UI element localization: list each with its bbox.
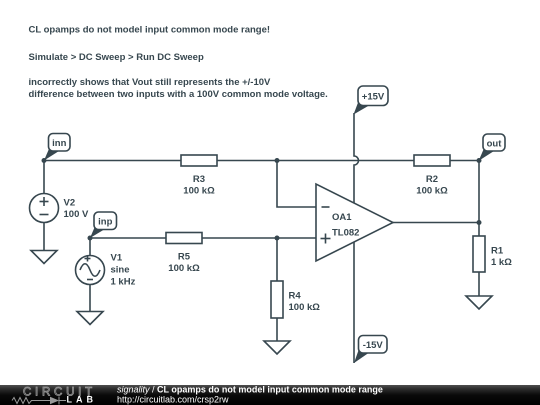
ground below V2 <box>31 251 57 264</box>
power flag +15V <box>354 86 389 115</box>
resistor R4 <box>271 281 320 318</box>
wire feedback node to inverting input <box>277 161 316 208</box>
junction node output/R1 <box>477 220 482 225</box>
svg-text:inn: inn <box>52 138 66 149</box>
voltage source V1 (sine) <box>76 253 136 288</box>
svg-text:100 kΩ: 100 kΩ <box>168 263 200 274</box>
wire R3 to R2 <box>217 160 414 162</box>
svg-text:sine: sine <box>111 265 130 276</box>
svg-text:R3: R3 <box>193 174 205 185</box>
junction node at inp <box>88 236 93 241</box>
svg-text:+15V: +15V <box>362 92 385 103</box>
wire V1 to ground <box>89 285 91 312</box>
wire R5 to non-inverting input <box>202 237 316 239</box>
junction node feedback/R3 <box>275 158 280 163</box>
svg-text:R1: R1 <box>491 246 504 257</box>
wire R1 to ground <box>478 272 480 296</box>
svg-text:TL082: TL082 <box>332 228 359 239</box>
svg-text:R2: R2 <box>426 174 438 185</box>
wire -15V supply <box>353 242 355 363</box>
voltage source V2 <box>30 194 89 223</box>
resistor R3 <box>181 155 217 197</box>
svg-text:CL opamps do not model input c: CL opamps do not model input common mode… <box>29 25 271 36</box>
resistor R2 <box>414 155 450 197</box>
resistor R1 <box>473 236 512 272</box>
ground below V1 <box>77 312 103 325</box>
op-amp OA1 TL082 <box>316 184 393 261</box>
svg-text:100 V: 100 V <box>64 209 89 220</box>
svg-text:1 kHz: 1 kHz <box>111 277 136 288</box>
wire R4 to ground <box>276 318 278 341</box>
svg-text:-15V: -15V <box>363 340 384 351</box>
svg-text:Simulate > DC Sweep > Run DC S: Simulate > DC Sweep > Run DC Sweep <box>29 52 204 63</box>
svg-text:OA1: OA1 <box>332 212 352 223</box>
wire inp node to R5 <box>90 237 166 239</box>
svg-text:http://circuitlab.com/crsp2rw: http://circuitlab.com/crsp2rw <box>117 395 229 405</box>
svg-text:incorrectly shows that Vout st: incorrectly shows that Vout still repres… <box>29 77 272 88</box>
wire R2 to out junction <box>450 160 479 162</box>
junction node R5/R4 <box>275 236 280 241</box>
wire inp node down to V1 <box>89 238 91 255</box>
svg-text:out: out <box>487 138 503 149</box>
svg-text:signality / CL opamps do not m: signality / CL opamps do not model input… <box>117 385 383 395</box>
resistor R5 <box>166 233 202 275</box>
node flag inn <box>44 134 70 161</box>
svg-text:1 kΩ: 1 kΩ <box>491 257 512 268</box>
node flag out <box>479 134 505 161</box>
svg-text:V2: V2 <box>64 198 76 209</box>
svg-text:100 kΩ: 100 kΩ <box>183 186 215 197</box>
junction node at out <box>477 158 482 163</box>
CircuitLab logo resistor-diode squiggle <box>12 397 66 405</box>
svg-text:inp: inp <box>98 216 112 227</box>
svg-text:R5: R5 <box>178 252 191 263</box>
wire inn node to R3 <box>44 160 181 162</box>
wire V2 to ground <box>43 223 45 251</box>
annotation text line 3 <box>29 77 328 100</box>
wire +15V supply with hop over feedback wire <box>354 113 359 203</box>
junction node at inn <box>42 158 47 163</box>
wire inn node down to V2 <box>43 161 45 194</box>
svg-text:V1: V1 <box>111 253 123 264</box>
ground below R1 <box>466 296 492 309</box>
footer bar <box>0 385 540 405</box>
svg-text:difference between two inputs: difference between two inputs with a 100… <box>29 89 328 100</box>
wire non-inverting node down to R4 <box>276 238 278 281</box>
wire op-amp output to node <box>393 222 479 224</box>
power flag -15V <box>354 336 387 364</box>
svg-text:R4: R4 <box>289 291 302 302</box>
svg-text:LAB: LAB <box>67 395 98 405</box>
node flag inp <box>90 212 117 238</box>
ground below R4 <box>264 341 290 354</box>
wire output node to R1 <box>478 223 480 237</box>
svg-text:100 kΩ: 100 kΩ <box>289 302 321 313</box>
svg-text:100 kΩ: 100 kΩ <box>416 186 448 197</box>
wire out junction down to output node <box>478 161 480 223</box>
